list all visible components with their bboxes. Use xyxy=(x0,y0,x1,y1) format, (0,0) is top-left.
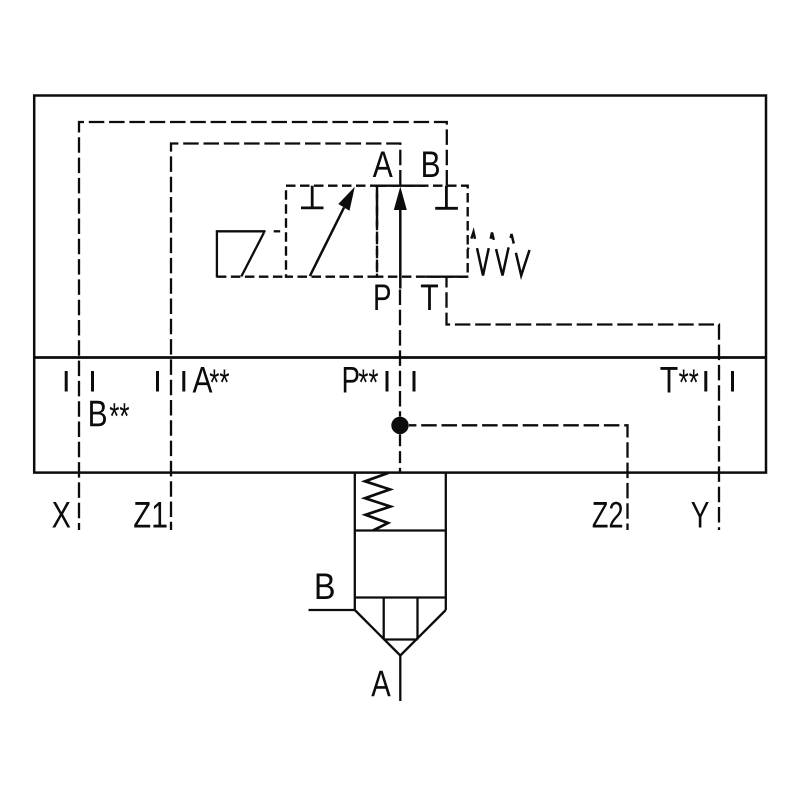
label T** port xyxy=(660,367,677,393)
asterisks of T** xyxy=(679,370,698,383)
port tick right of X line xyxy=(91,371,94,392)
blocked port symbol B right box xyxy=(435,186,458,209)
pilot line P upper (dashed) xyxy=(399,290,401,417)
port tick left of P line xyxy=(386,371,389,392)
pilot valve U1 right position box (dashed) xyxy=(377,186,468,277)
pilot line Z2 (dashed) xyxy=(409,425,628,530)
label B cartridge xyxy=(317,574,334,600)
label B pilot valve xyxy=(423,152,439,178)
cartridge spring xyxy=(365,473,391,531)
flow arrow right box P to A xyxy=(394,187,407,289)
label A** port xyxy=(193,367,213,393)
port tick left of Z1 line xyxy=(156,371,159,392)
pilot valve solid edge overlay bottom (blocked port T) xyxy=(426,276,469,278)
pilot valve solid edge overlay middle xyxy=(376,186,378,226)
asterisks of B** xyxy=(110,403,129,416)
port tick right of Y line xyxy=(731,371,734,392)
pilot line P lower to cartridge (dashed) xyxy=(399,434,401,471)
node junction dot xyxy=(391,417,408,434)
flow arrow left box (slanted) xyxy=(310,187,355,276)
port B line of cartridge xyxy=(309,609,355,611)
mounting face line xyxy=(33,356,767,359)
label Y xyxy=(691,502,709,528)
label B** port xyxy=(90,401,106,427)
cartridge poppet seat triangle xyxy=(355,598,446,656)
label P** port xyxy=(344,367,359,393)
cartridge valve body xyxy=(355,472,446,611)
port tick left of X line xyxy=(65,371,68,392)
port tick right of P line xyxy=(413,371,416,392)
serif foot of digit 1 in Z1 xyxy=(155,525,166,528)
manifold block outline xyxy=(34,96,766,473)
port A line of cartridge xyxy=(399,656,401,702)
pilot valve U1 left position box (dashed) xyxy=(286,186,377,277)
pilot valve solid edge overlay top xyxy=(375,185,425,187)
asterisks of P** xyxy=(359,370,378,383)
asterisks of A** xyxy=(210,370,229,383)
label X xyxy=(52,502,70,528)
label P pilot valve xyxy=(375,285,390,311)
return spring of pilot valve (dashed) xyxy=(468,232,530,276)
label Z1 xyxy=(134,502,166,528)
solenoid Y1 xyxy=(217,230,286,277)
label Z2 xyxy=(593,502,623,528)
port tick right of Z1 line xyxy=(182,371,185,392)
pilot line X envelope (dashed, via port B of pilot valve) xyxy=(79,122,447,530)
label T pilot valve xyxy=(421,285,438,311)
pilot line Z1 envelope (dashed, via port A of pilot valve) xyxy=(171,144,400,531)
pilot line T (dashed elbow to Y) xyxy=(447,277,720,530)
label A cartridge xyxy=(371,671,390,696)
label A pilot valve xyxy=(373,152,393,178)
blocked port symbol left box xyxy=(301,186,324,208)
port tick left of Y line xyxy=(704,371,707,392)
